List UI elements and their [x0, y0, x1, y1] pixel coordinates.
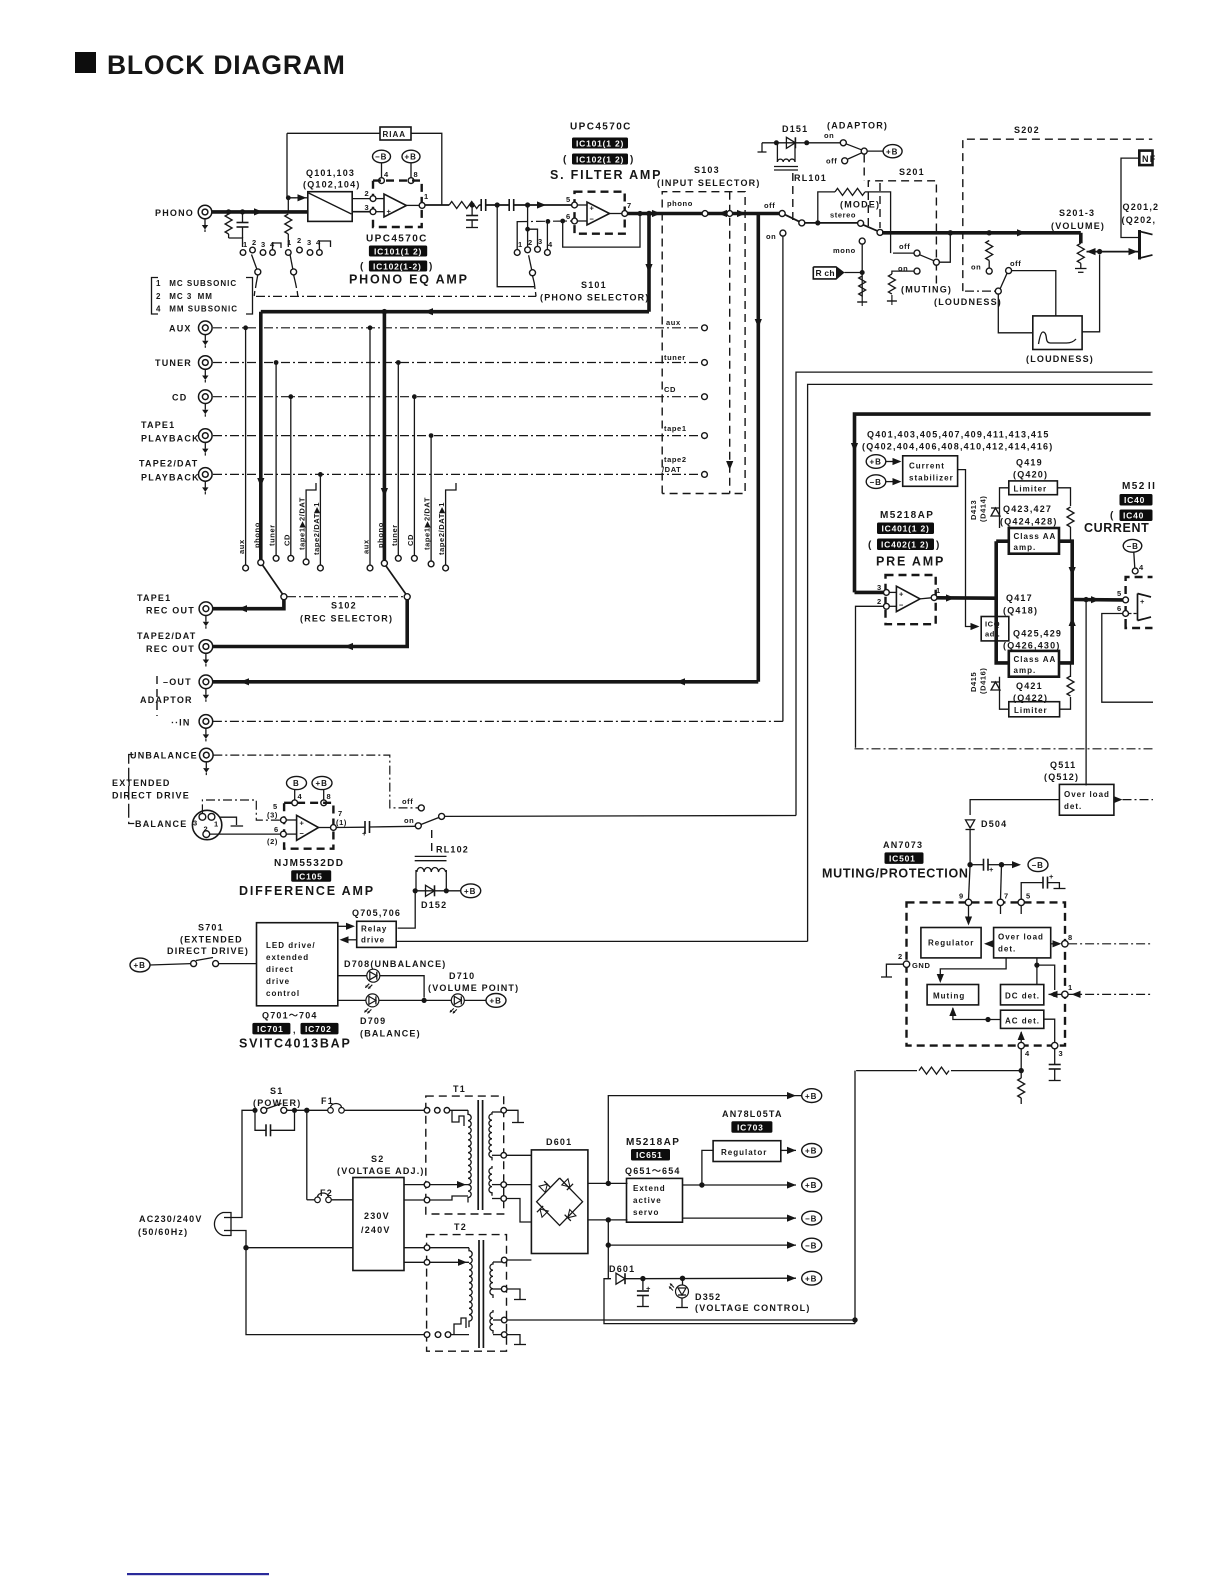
- junction S2 feed: [243, 1245, 248, 1250]
- svg-text:TUNER: TUNER: [155, 358, 192, 368]
- wire: AC det to muting: [949, 1007, 1000, 1020]
- chip label IC701: [252, 1023, 290, 1035]
- limiter lower box: [1009, 702, 1060, 717]
- wire: overload to DC det vertical: [1036, 958, 1038, 985]
- svg-text:−B: −B: [870, 478, 882, 487]
- pin 6: [1117, 604, 1129, 616]
- adaptor bracket dashed: [156, 676, 158, 716]
- svg-text:D413: D413: [969, 500, 978, 520]
- junction: [546, 219, 551, 224]
- svg-text:D709: D709: [360, 1016, 386, 1026]
- svg-text:+B: +B: [886, 147, 898, 156]
- svg-text:Class AA: Class AA: [1014, 532, 1057, 541]
- svg-text:UPC4570C: UPC4570C: [570, 122, 632, 133]
- pin 2 + GND: [881, 952, 930, 977]
- op-amp U102 triangle: [587, 202, 610, 225]
- wire: regulator out +B: [781, 1144, 822, 1158]
- svg-text:2: 2: [204, 825, 209, 834]
- wires: S2 to T1: [404, 1184, 424, 1186]
- tap CD group2: [412, 394, 418, 561]
- ICQ adj box: [981, 617, 1009, 641]
- svg-text:9: 9: [959, 892, 964, 901]
- arrows on right bracket: [1069, 567, 1076, 576]
- jack AUX: [199, 321, 213, 348]
- svg-text:1: 1: [243, 240, 248, 249]
- svg-text:D601: D601: [546, 1137, 572, 1147]
- svg-text:,: ,: [293, 1025, 297, 1035]
- switch S1: [252, 1104, 306, 1114]
- svg-text:D352: D352: [695, 1292, 721, 1302]
- svg-text:RL101: RL101: [794, 173, 827, 183]
- arrow: [344, 643, 353, 650]
- wire: phono main line to EQ box: [212, 210, 308, 214]
- pin 8: [1051, 933, 1153, 947]
- wire: off to loudness box top: [1012, 271, 1056, 316]
- arrow: [787, 1092, 796, 1099]
- svg-text:det.: det.: [1064, 802, 1082, 811]
- +B terminal top: [802, 1089, 822, 1103]
- svg-text:Q101,103: Q101,103: [306, 168, 355, 178]
- diode D152: [426, 885, 435, 896]
- junction cap: [640, 1276, 645, 1281]
- svg-text:off: off: [764, 201, 775, 210]
- svg-text:Muting: Muting: [933, 992, 965, 1001]
- resistor phono series (2nd leg): [285, 214, 292, 234]
- S103 wiper bus dashed: [729, 192, 731, 494]
- junction D151 left: [774, 140, 779, 145]
- svg-text:M5218AP: M5218AP: [626, 1137, 680, 1148]
- resistor series after EQ: [449, 202, 479, 209]
- capacitor shunt to ground: [466, 205, 478, 228]
- chip label IC102 (phono): [360, 261, 434, 273]
- svg-text:(Q202,: (Q202,: [1122, 215, 1157, 225]
- AC plug: [214, 1213, 231, 1236]
- switch S101a contacts 1-4: [240, 238, 281, 255]
- svg-text:PHONO EQ AMP: PHONO EQ AMP: [349, 273, 469, 287]
- junction rec bus/phono2: [382, 309, 388, 315]
- svg-text:−B: −B: [1127, 542, 1139, 551]
- wire: limiter lower leads: [1000, 677, 1009, 710]
- svg-text:5: 5: [1117, 589, 1122, 598]
- pin 6: [267, 825, 286, 846]
- tap CD group1: [288, 394, 294, 561]
- svg-text:3: 3: [365, 203, 370, 212]
- pin 5: [1117, 589, 1129, 603]
- wire: wiper out: [1087, 251, 1140, 253]
- svg-text:+B: +B: [805, 1092, 817, 1101]
- svg-text:D710: D710: [449, 971, 475, 981]
- svg-text:): ): [936, 540, 941, 551]
- arrow: [676, 678, 685, 685]
- svg-text:7: 7: [1004, 892, 1009, 901]
- svg-text:+: +: [590, 204, 595, 213]
- pin 4 lead: [1132, 552, 1144, 574]
- op-amp U101 triangle: [384, 194, 406, 217]
- loudness pole: [965, 273, 1007, 294]
- DC det box: [1001, 985, 1044, 1005]
- pin 8 lead: [408, 163, 418, 184]
- contact bottom phono1: [258, 560, 264, 566]
- svg-text:CD: CD: [282, 534, 291, 546]
- jack CD: [199, 390, 213, 417]
- svg-text:(VOLUME): (VOLUME): [1051, 221, 1105, 231]
- svg-text:(Q102,104): (Q102,104): [303, 180, 361, 190]
- resistor right lower: [1067, 676, 1074, 696]
- svg-text:IC40: IC40: [1124, 495, 1145, 505]
- resistor phono input load: [225, 214, 232, 234]
- svg-text:4 MM SUBSONIC: 4 MM SUBSONIC: [156, 305, 238, 314]
- svg-text:7: 7: [338, 809, 343, 818]
- T1 core: [478, 1100, 482, 1210]
- svg-text:Regulator: Regulator: [928, 939, 974, 948]
- junction loudness: [987, 230, 992, 235]
- wire: S201 pole mech dashed: [879, 183, 881, 228]
- svg-text:PRE AMP: PRE AMP: [876, 555, 945, 569]
- wire: relay drive long output: [396, 940, 807, 942]
- arrow: [257, 478, 264, 487]
- IC501 dashed box: [907, 902, 1066, 1045]
- arrow: [537, 201, 546, 208]
- wire: feedback upper input: [287, 133, 296, 198]
- arrow + +B terminal lower: [787, 1271, 822, 1285]
- relay drive box: [357, 921, 397, 947]
- svg-text:Q401,403,405,407,409,411,413,4: Q401,403,405,407,409,411,413,415: [867, 430, 1050, 440]
- diode D415: [969, 667, 1000, 694]
- contact on (balance sw): [415, 823, 421, 829]
- wire: main out to current amp: [1072, 598, 1122, 602]
- svg-text:1: 1: [287, 238, 292, 247]
- op-amp current triangle (cut): [1138, 594, 1152, 621]
- junction mode left: [815, 220, 820, 225]
- svg-text:on: on: [971, 263, 981, 272]
- footer blue rule: [127, 1573, 269, 1575]
- svg-text:(: (: [868, 540, 873, 551]
- svg-text:2: 2: [877, 597, 882, 606]
- -B terminal (stabilizer): [866, 475, 901, 489]
- svg-text:(EXTENDED: (EXTENDED: [180, 935, 243, 945]
- wire: D151 line: [762, 142, 840, 144]
- chip label IC703: [731, 1121, 772, 1133]
- contact tape2: [213, 472, 707, 478]
- relay RL102: [415, 856, 447, 890]
- arrow: [240, 678, 249, 685]
- wires: S2 to T2: [404, 1247, 424, 1249]
- svg-text:IC701: IC701: [257, 1024, 284, 1034]
- wire: overload ext out: [1114, 796, 1154, 803]
- extended bracket: [129, 755, 135, 824]
- resistor right upper: [1067, 507, 1074, 527]
- T2 primary bottom: [424, 1318, 469, 1337]
- svg-text:S. FILTER AMP: S. FILTER AMP: [550, 168, 662, 182]
- jack TAPE1 REC OUT: [199, 602, 213, 629]
- arrow into phono contact: [718, 210, 727, 217]
- diode D601 lower: [616, 1273, 625, 1284]
- svg-text:TAPE2/DAT: TAPE2/DAT: [137, 631, 196, 641]
- svg-text:TAPE1: TAPE1: [141, 420, 175, 430]
- svg-text:Q705,706: Q705,706: [352, 908, 401, 918]
- muting box: [927, 985, 979, 1005]
- svg-text:(MUTING): (MUTING): [901, 285, 952, 295]
- S101 contact 2: [525, 207, 533, 253]
- svg-text:IC101(1 2): IC101(1 2): [576, 138, 624, 148]
- svg-text:2: 2: [898, 952, 903, 961]
- svg-text:Over load: Over load: [998, 933, 1044, 942]
- T2 secondary winding: [490, 1262, 493, 1298]
- pin 4: [1018, 1042, 1030, 1058]
- tap aux group2: [367, 325, 373, 570]
- svg-text:6: 6: [566, 212, 571, 221]
- svg-text:AC det.: AC det.: [1005, 1017, 1040, 1026]
- svg-text:off: off: [402, 797, 413, 806]
- junction regulator feed: [699, 1182, 704, 1187]
- svg-text:Current: Current: [909, 462, 945, 471]
- S102 pole right: [386, 566, 410, 600]
- loudness tap resistor: [986, 241, 993, 275]
- op-amp U101 dashed box: [373, 181, 422, 227]
- svg-text:4: 4: [1025, 1049, 1030, 1058]
- svg-text:1: 1: [936, 586, 941, 595]
- contact off (loudness): [1006, 268, 1012, 274]
- svg-text:T2: T2: [454, 1222, 467, 1232]
- tap tape1>2 group1: [303, 483, 316, 565]
- svg-text:(Q512): (Q512): [1044, 772, 1079, 782]
- pot wiper arrow: [1087, 248, 1096, 255]
- junction: [444, 888, 449, 893]
- svg-text:(D414): (D414): [979, 495, 988, 522]
- pin 7 output: [319, 809, 347, 830]
- wire: F2 branch: [306, 1110, 308, 1200]
- wires to triangle: [577, 204, 587, 206]
- wire: regulator-overload link: [984, 940, 994, 947]
- arrow down on rec drop: [645, 264, 652, 273]
- wire: phono bus 2 down: [383, 312, 387, 561]
- wire: loudness box right to wiper: [1082, 255, 1100, 332]
- volume pot: [1075, 233, 1087, 272]
- svg-text:SVITC4013BAP: SVITC4013BAP: [239, 1037, 352, 1051]
- opamp U102 filter dashed box: [575, 192, 625, 234]
- wire: NFB thick frame: [855, 414, 1151, 592]
- junction feedback: [637, 211, 642, 216]
- title block square: [75, 52, 96, 73]
- svg-text:(Q402,404,406,408,410,412,414,: (Q402,404,406,408,410,412,414,416): [862, 442, 1053, 452]
- diode D413: [969, 495, 1000, 522]
- rotated labels group1: [237, 497, 321, 555]
- svg-text:phono: phono: [376, 522, 385, 548]
- svg-text:Q425,429: Q425,429: [1013, 629, 1062, 639]
- wire: OUT line: [213, 680, 758, 684]
- svg-text:D504: D504: [981, 819, 1007, 829]
- op-amp U105 triangle: [297, 815, 319, 840]
- svg-text:+B: +B: [405, 153, 417, 162]
- svg-text:amp.: amp.: [1014, 666, 1037, 675]
- wire: column A (diff amp signal up): [796, 372, 1153, 815]
- pin 3: [855, 583, 890, 595]
- svg-text:+B: +B: [805, 1181, 817, 1190]
- junction pin1/dc branch: [1052, 992, 1057, 997]
- svg-text:−B: −B: [1032, 861, 1044, 870]
- arrow after common: [737, 210, 746, 217]
- wire: NF feedback loop: [1121, 158, 1139, 237]
- svg-text:tuner: tuner: [268, 524, 277, 546]
- arrow: [1091, 596, 1100, 603]
- svg-text:DIFFERENCE AMP: DIFFERENCE AMP: [239, 884, 375, 898]
- pin 1 output: [406, 192, 428, 208]
- svg-text:+B: +B: [134, 961, 146, 970]
- XLR pin1 chassis stub: [220, 817, 237, 825]
- svg-text:(BALANCE): (BALANCE): [360, 1029, 421, 1039]
- overload det int box: [994, 928, 1051, 958]
- svg-text:CD: CD: [172, 393, 187, 403]
- svg-text:+: +: [362, 829, 367, 838]
- junction LED: [680, 1276, 685, 1281]
- svg-text:2: 2: [365, 189, 370, 198]
- svg-text:off: off: [1010, 259, 1021, 268]
- S102 pole left: [263, 565, 287, 600]
- jack TAPE2/DAT PLAYBACK: [199, 468, 213, 495]
- arrow: [238, 605, 247, 612]
- svg-text:REC OUT: REC OUT: [146, 644, 195, 654]
- wire: selector mechanical dashed line: [256, 295, 536, 297]
- svg-text:TAPE2/DAT: TAPE2/DAT: [139, 459, 198, 469]
- svg-text:S701: S701: [198, 923, 224, 933]
- svg-text:5: 5: [566, 195, 571, 204]
- wire: limiter upper leads: [1000, 488, 1009, 528]
- svg-text:direct: direct: [266, 965, 294, 974]
- T1 primary top contacts: [424, 1108, 468, 1127]
- wire: balance path to power amp column: [445, 815, 796, 818]
- svg-text:DC det.: DC det.: [1005, 992, 1040, 1001]
- pin 2: [856, 597, 890, 748]
- chip label IC501: [885, 852, 924, 864]
- svg-text:Q701～704: Q701～704: [262, 1011, 318, 1021]
- LED D352: [669, 1278, 689, 1307]
- overload det ext box: [1059, 784, 1114, 815]
- svg-text:GND: GND: [912, 961, 930, 970]
- junction T2 line: [852, 1317, 857, 1322]
- svg-text:amp.: amp.: [1014, 543, 1037, 552]
- wire: regulator feed: [702, 1150, 713, 1185]
- svg-text:(1): (1): [336, 818, 347, 827]
- svg-text:D601: D601: [609, 1264, 635, 1274]
- capacitor below pin3: [1049, 1049, 1061, 1081]
- wire: plug hot up to S1: [231, 1110, 255, 1217]
- wire: classAA left bracket: [996, 541, 1009, 663]
- junction contact2 tap: [525, 202, 530, 207]
- contact aux: [213, 325, 707, 331]
- resistor in supply feed: [917, 1063, 951, 1078]
- pin 8 lead: [321, 790, 331, 806]
- svg-text:+: +: [300, 819, 305, 828]
- chip label IC402 (current): [1110, 510, 1153, 522]
- wire: EQ out line: [425, 204, 449, 206]
- svg-text:NJM5532DD: NJM5532DD: [274, 858, 344, 869]
- svg-text:off: off: [899, 242, 910, 251]
- resistor below pin4: [1018, 1078, 1025, 1098]
- svg-text:D708(UNBALANCE): D708(UNBALANCE): [344, 959, 447, 969]
- wire: feedback dash-dot to pin6: [519, 220, 572, 223]
- svg-text:(: (: [563, 155, 568, 166]
- svg-text:(ADAPTOR): (ADAPTOR): [827, 121, 888, 131]
- contact tape1: [213, 433, 707, 439]
- wire: pin5 into box: [1020, 906, 1022, 914]
- svg-text:CD: CD: [406, 534, 415, 546]
- svg-text:/DAT: /DAT: [662, 465, 681, 474]
- junction: [560, 219, 565, 224]
- svg-text:(Q418): (Q418): [1003, 606, 1038, 616]
- svg-text:1: 1: [424, 192, 429, 201]
- junction supply line: [1019, 1068, 1024, 1073]
- wire: preamp out: [937, 596, 996, 600]
- loudness box: [1033, 316, 1082, 350]
- svg-text:DIRECT DRIVE: DIRECT DRIVE: [112, 791, 190, 801]
- amp Q201 (cut by page edge): [1140, 230, 1153, 260]
- junction F2 drop: [304, 1108, 309, 1113]
- wire: stabilizer to ICQ adj: [958, 470, 975, 627]
- svg-text:drive: drive: [266, 977, 290, 986]
- svg-text:EXTENDED: EXTENDED: [112, 778, 171, 788]
- label TAPE1 PLAYBACK: [141, 420, 200, 444]
- switch mode pole slant: [863, 225, 878, 231]
- S101 contact 4: [545, 223, 554, 255]
- svg-text:(Q424,428): (Q424,428): [1000, 517, 1058, 527]
- jack IN: [199, 715, 213, 742]
- T2 primary taps top: [424, 1245, 469, 1266]
- regulator box (supply): [713, 1141, 781, 1162]
- svg-text:3: 3: [261, 240, 266, 249]
- label TAPE1 REC OUT: [137, 593, 195, 616]
- stub left of D151: [758, 143, 767, 152]
- svg-text:IC102(1-2): IC102(1-2): [373, 261, 422, 271]
- wire: to S2: [246, 1247, 353, 1249]
- contact CD: [213, 394, 707, 400]
- svg-text:1: 1: [1068, 983, 1073, 992]
- svg-text:+: +: [899, 590, 904, 599]
- svg-text:4: 4: [548, 240, 553, 249]
- svg-text:UNBALANCE: UNBALANCE: [130, 751, 198, 761]
- svg-text:S103: S103: [694, 165, 720, 175]
- current stabilizer box: [903, 456, 958, 487]
- tap tuner group2: [395, 360, 401, 561]
- wire: servo out +B: [683, 1178, 822, 1192]
- diode D504: [966, 820, 975, 865]
- svg-text:phono: phono: [252, 522, 261, 548]
- S2 box: [353, 1178, 404, 1271]
- +B terminal (D710): [486, 994, 506, 1008]
- wire: riser to protection: [854, 1071, 856, 1324]
- +B terminal (D152): [461, 884, 481, 898]
- S1 bypass capacitor loop: [255, 1110, 295, 1136]
- svg-text:+: +: [989, 865, 994, 874]
- label EXTENDED DIRECT DRIVE: [112, 778, 190, 801]
- svg-text:3: 3: [193, 819, 198, 828]
- svg-text:tape2: tape2: [664, 455, 687, 464]
- pin 4 lead: [292, 790, 303, 806]
- junction feedback/main: [286, 195, 291, 200]
- junction Q511: [1083, 597, 1088, 602]
- svg-text:D151: D151: [782, 124, 808, 134]
- capacitor series 2: [509, 199, 514, 211]
- contact common: [727, 211, 733, 217]
- svg-text:PHONO: PHONO: [155, 208, 194, 218]
- junction D708/D709: [422, 998, 427, 1003]
- wire: rec bus drop: [647, 214, 651, 312]
- -B terminal (protection): [1002, 858, 1049, 872]
- -B terminal (current amp): [1123, 539, 1142, 552]
- pin 6: [566, 212, 577, 224]
- svg-text:IC102(1 2): IC102(1 2): [576, 154, 624, 164]
- wire: S102 mech dashed: [287, 596, 404, 598]
- svg-text:AC230/240V: AC230/240V: [139, 1214, 203, 1224]
